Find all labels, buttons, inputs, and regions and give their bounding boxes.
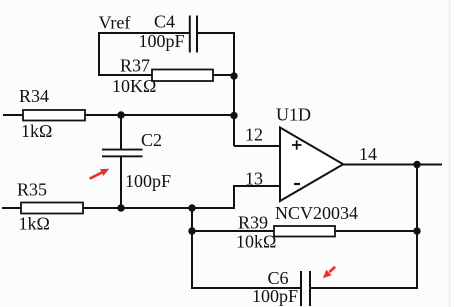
svg-text:100pF: 100pF — [125, 171, 171, 191]
wire R39 right — [335, 230, 418, 232]
svg-text:C6: C6 — [268, 268, 289, 288]
svg-text:14: 14 — [359, 144, 377, 164]
svg-text:Vref: Vref — [99, 13, 131, 33]
op-amp plus sign — [292, 140, 302, 149]
svg-text:R34: R34 — [19, 86, 49, 106]
wire R34 right to node — [85, 114, 235, 116]
svg-text:1kΩ: 1kΩ — [21, 121, 52, 141]
resistor R39 — [274, 226, 335, 237]
wire C2 top — [120, 114, 122, 150]
svg-text:100pF: 100pF — [252, 286, 298, 306]
op-amp minus sign — [294, 183, 300, 185]
resistor R35 — [21, 203, 83, 214]
svg-text:1kΩ: 1kΩ — [19, 214, 50, 234]
svg-text:13: 13 — [245, 169, 263, 189]
svg-text:12: 12 — [245, 125, 263, 145]
capacitor C2 plates — [102, 149, 143, 158]
resistor R34 — [23, 110, 85, 121]
red annotation arrow at C2 — [90, 169, 110, 179]
window edge artifact line — [449, 0, 451, 307]
wire pin12 horizontal — [234, 145, 281, 147]
op-amp U1D triangle — [280, 128, 343, 202]
svg-text:R35: R35 — [17, 180, 47, 200]
wire R35 left lead — [2, 207, 21, 209]
wire right vertical — [416, 165, 418, 290]
svg-text:10KΩ: 10KΩ — [112, 76, 156, 96]
svg-text:100pF: 100pF — [139, 31, 185, 51]
svg-text:NCV20034: NCV20034 — [275, 203, 358, 223]
wire left vertical bottom — [191, 207, 193, 289]
wire bottom C6 right — [310, 287, 418, 289]
wire pin13 step — [234, 186, 281, 209]
svg-text:C4: C4 — [154, 12, 175, 32]
resistor R37 — [152, 70, 213, 82]
wire R39 left — [192, 230, 274, 232]
wire R37 right — [213, 74, 235, 76]
wire R35 right to corner — [83, 207, 235, 209]
wire Vref left vertical — [98, 32, 100, 76]
junction node dots — [117, 72, 420, 234]
wire bottom left to C6 — [192, 287, 300, 289]
svg-text:U1D: U1D — [276, 105, 311, 125]
wire C4 right to vertical — [198, 32, 235, 34]
red annotation arrow at C6 — [323, 267, 335, 279]
wire R37 left — [98, 74, 152, 76]
wire C2 bottom — [120, 157, 122, 209]
svg-text:R39: R39 — [238, 213, 268, 233]
capacitor C4 plates — [189, 16, 198, 53]
svg-text:C2: C2 — [141, 130, 162, 150]
wire output pin14 — [343, 164, 442, 166]
svg-text:R37: R37 — [120, 56, 150, 76]
wire Vref top to C4 — [98, 32, 189, 34]
capacitor C6 plates — [300, 271, 311, 306]
svg-text:10kΩ: 10kΩ — [236, 232, 276, 252]
wire R34 left lead — [3, 114, 23, 116]
wire feedback vertical x234 — [233, 32, 235, 146]
